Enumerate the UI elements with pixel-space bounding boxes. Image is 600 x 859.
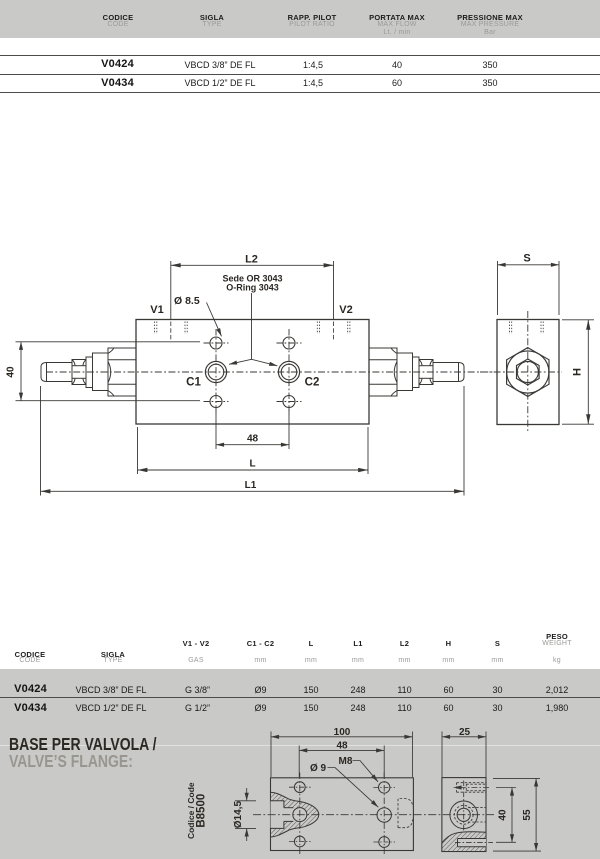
svg-text:Ø 9: Ø 9 bbox=[310, 763, 327, 774]
slot channel outline bbox=[284, 807, 293, 809]
flange hole bottom-right bbox=[379, 837, 390, 848]
dim L1 bbox=[41, 386, 465, 496]
nut outer circle bbox=[507, 351, 549, 393]
right adjuster cartridge (mirrored) bbox=[369, 348, 464, 396]
leader for Ø 8.5 bbox=[207, 303, 222, 337]
top hole left bbox=[210, 337, 222, 349]
svg-text:H: H bbox=[572, 368, 584, 376]
table 1 header: SIGLA/TYPE bbox=[200, 13, 224, 22]
svg-text:C2: C2 bbox=[305, 377, 320, 389]
port C2 bbox=[278, 361, 299, 382]
section slot notch bbox=[458, 839, 487, 847]
dim H (right) bbox=[562, 320, 594, 424]
dim L2 bbox=[171, 261, 334, 319]
main horizontal centerline bbox=[46, 371, 497, 373]
leader M8 bbox=[353, 761, 379, 782]
svg-text:L1: L1 bbox=[245, 480, 257, 491]
side M8 centerline with arrow bbox=[454, 787, 490, 789]
side hidden circle bbox=[454, 805, 473, 824]
table 2 separator bbox=[0, 697, 600, 698]
flange main horizontal centerline bbox=[253, 814, 494, 816]
V2 port hidden thread bbox=[317, 322, 350, 340]
dim L bbox=[138, 427, 369, 474]
side vertical centerline bbox=[463, 781, 465, 835]
leader for Sede OR 3043 / O-Ring 3043 bbox=[229, 293, 277, 366]
dim 48 (bottom) bbox=[216, 409, 289, 450]
svg-text:Ø14,5: Ø14,5 bbox=[233, 801, 244, 829]
C2 column vertical centerline bbox=[288, 329, 290, 415]
svg-text:25: 25 bbox=[459, 727, 471, 738]
slot channel bbox=[283, 808, 300, 822]
svg-text:48: 48 bbox=[247, 434, 259, 445]
valve body outline bbox=[136, 320, 369, 425]
dim 100 bbox=[271, 732, 413, 778]
sectioned boss (hatched dome) bbox=[442, 832, 486, 852]
flange hole mid-right (Ø9) bbox=[377, 808, 391, 822]
side hole inner circle bbox=[457, 808, 470, 821]
dim S bbox=[498, 261, 560, 315]
flange drawing text labels bbox=[186, 727, 533, 839]
svg-text:48: 48 bbox=[336, 740, 348, 751]
svg-text:40: 40 bbox=[6, 366, 17, 378]
flange hole top-right (M8) bbox=[379, 782, 390, 793]
table 1 header: CODICE/CODE bbox=[103, 13, 134, 22]
top hole right bbox=[283, 337, 295, 349]
svg-text:B8500: B8500 bbox=[196, 794, 208, 828]
C1 column vertical centerline bbox=[215, 329, 217, 415]
svg-text:L2: L2 bbox=[245, 254, 258, 266]
bottom hole left bbox=[210, 396, 222, 408]
svg-text:100: 100 bbox=[334, 727, 351, 738]
nut inner hexagon bbox=[517, 359, 540, 385]
drawing text labels bbox=[6, 253, 584, 492]
slot hole Ø14.5 bbox=[293, 808, 307, 822]
dim 40 (left) bbox=[16, 342, 201, 401]
svg-text:V2: V2 bbox=[339, 304, 352, 316]
slot notch bbox=[271, 801, 284, 829]
hidden pocket (dashed) at right edge bbox=[398, 799, 413, 828]
side M8 hidden thread bbox=[457, 783, 487, 793]
flange side view outline bbox=[442, 778, 486, 852]
table 1 rules bbox=[0, 55, 600, 56]
flange hole bottom-left bbox=[294, 836, 305, 847]
dim 48 (flange) bbox=[299, 746, 384, 778]
left adjuster cartridge bbox=[41, 348, 136, 396]
table 2 row V0424 bbox=[14, 683, 47, 695]
svg-text:M8: M8 bbox=[339, 756, 353, 767]
bottom hole right bbox=[283, 396, 295, 408]
side view vertical centerline bbox=[527, 311, 529, 432]
side view block outline bbox=[497, 320, 559, 425]
svg-text:C1: C1 bbox=[186, 377, 201, 389]
side view horizontal centerline bbox=[480, 371, 562, 373]
side view hidden thread marks bbox=[510, 322, 544, 335]
svg-text:55: 55 bbox=[522, 809, 533, 821]
table 1 header: PRESSIONE MAX bbox=[457, 13, 523, 22]
port C1 bbox=[205, 361, 226, 382]
dim Ø14,5 bbox=[235, 788, 256, 841]
svg-text:40: 40 bbox=[498, 809, 509, 821]
svg-text:V1: V1 bbox=[150, 304, 163, 316]
svg-text:Codice / Code: Codice / Code bbox=[186, 782, 196, 839]
top header gray band bbox=[0, 0, 600, 38]
bottom gray background bbox=[0, 669, 600, 859]
table 1 row V0434 bbox=[101, 77, 134, 89]
svg-text:O-Ring 3043: O-Ring 3043 bbox=[226, 283, 279, 293]
svg-text:S: S bbox=[523, 253, 530, 265]
svg-text:L: L bbox=[249, 459, 255, 470]
table 1 row V0424 bbox=[101, 58, 134, 70]
nut inner circle bbox=[517, 361, 538, 382]
dim 40 (flange side) bbox=[496, 788, 516, 843]
svg-text:Ø 8.5: Ø 8.5 bbox=[174, 295, 200, 307]
dim 25 bbox=[442, 732, 486, 778]
table 2 row V0434 bbox=[14, 702, 47, 714]
side counterbore outer circle bbox=[450, 801, 478, 829]
bottom section titles bbox=[9, 734, 157, 755]
table 2 headers (on white) bbox=[15, 650, 46, 659]
flange boss (hatched section) bbox=[271, 792, 319, 836]
leader Ø 9 bbox=[328, 768, 379, 808]
flange hole top-left bbox=[294, 782, 305, 793]
slot notch outline bbox=[271, 801, 284, 829]
table 1 header: PORTATA MAX bbox=[369, 13, 425, 22]
front view vertical centerline left column bbox=[299, 773, 301, 857]
faint highlight line bbox=[0, 745, 600, 746]
flange plate outline (front view) bbox=[271, 778, 414, 851]
front view vertical centerline right column bbox=[383, 773, 385, 857]
V1 port hidden thread bbox=[155, 322, 188, 340]
table 1 header: RAPP. PILOT bbox=[288, 13, 337, 22]
dim 55 (flange side) bbox=[493, 778, 541, 851]
section slot centerline bbox=[455, 842, 493, 844]
side hidden slot lines bbox=[468, 806, 486, 808]
nut outer hexagon bbox=[507, 348, 549, 397]
